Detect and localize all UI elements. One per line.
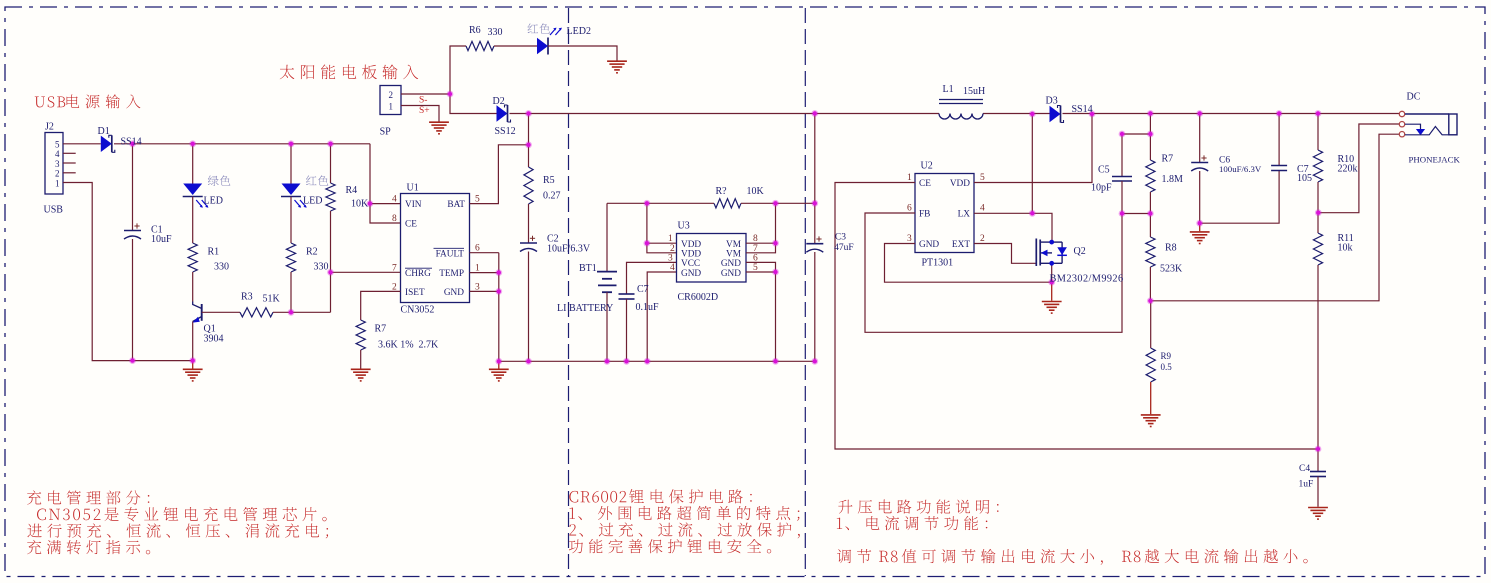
svg-text:SS14: SS14 xyxy=(1072,104,1093,115)
svg-text:VDD: VDD xyxy=(681,240,701,250)
resistor R9 0.5 xyxy=(1150,301,1152,348)
chip U3 CR6002D xyxy=(677,234,747,283)
svg-text:C7: C7 xyxy=(637,284,649,295)
wire U2 VDD to output xyxy=(974,114,1092,183)
resistor R7 1.8M xyxy=(1149,114,1151,161)
wire U3 VCC to C7 xyxy=(627,262,677,294)
label green color xyxy=(208,175,231,186)
svg-text:CE: CE xyxy=(405,220,417,230)
svg-text:15uH: 15uH xyxy=(963,86,985,97)
wire U2 LX to inductor node xyxy=(974,212,1032,214)
svg-text:330: 330 xyxy=(488,27,503,38)
svg-text:U3: U3 xyxy=(678,221,690,232)
wire U2 GND to Q2 source xyxy=(885,244,1052,283)
wire U1 ISET to R7 xyxy=(361,291,401,320)
svg-text:8: 8 xyxy=(753,234,758,244)
svg-text:U1: U1 xyxy=(407,183,419,194)
transistor Q2 BM2302 xyxy=(1035,239,1037,267)
svg-text:2: 2 xyxy=(55,169,60,179)
wire rail L1 to D3 xyxy=(983,113,1050,115)
LED2 red xyxy=(537,38,548,54)
svg-text:R4: R4 xyxy=(346,185,358,196)
title solar panel input xyxy=(280,64,418,79)
svg-text:R?: R? xyxy=(716,186,728,197)
wire battery plus rail xyxy=(607,202,714,204)
wire rail D3 to DC jack xyxy=(1063,113,1400,115)
ground under LED2 xyxy=(607,60,627,62)
svg-text:VDD: VDD xyxy=(950,179,970,189)
svg-text:GND: GND xyxy=(444,288,464,298)
svg-text:GND: GND xyxy=(681,269,701,279)
svg-text:10uF/6.3V: 10uF/6.3V xyxy=(547,244,591,255)
svg-text:3.6K 1% 2.7K: 3.6K 1% 2.7K xyxy=(378,340,439,351)
svg-text:R2: R2 xyxy=(306,247,318,258)
svg-text:5: 5 xyxy=(475,195,480,205)
svg-text:1: 1 xyxy=(668,234,673,244)
svg-text:CR6002D: CR6002D xyxy=(678,292,719,303)
svg-text:R3: R3 xyxy=(241,292,253,303)
svg-text:Q2: Q2 xyxy=(1074,246,1086,257)
note charging management xyxy=(27,490,149,504)
wire U1 BAT to battery rail xyxy=(470,145,529,204)
svg-text:1: 1 xyxy=(389,102,394,112)
svg-text:D3: D3 xyxy=(1046,96,1058,107)
svg-text:PT1301: PT1301 xyxy=(922,258,954,269)
svg-text:1uF: 1uF xyxy=(1299,480,1314,490)
svg-text:TEMP: TEMP xyxy=(439,269,464,279)
svg-text:10K: 10K xyxy=(747,186,765,197)
svg-text:4: 4 xyxy=(670,263,675,273)
svg-text:SS12: SS12 xyxy=(495,126,516,137)
svg-text:1: 1 xyxy=(907,173,912,183)
svg-text:LED: LED xyxy=(303,196,322,207)
note CR6002 protection xyxy=(569,491,626,503)
svg-text:VIN: VIN xyxy=(405,200,422,210)
svg-text:R8: R8 xyxy=(1165,243,1177,254)
svg-text:CN3052: CN3052 xyxy=(401,305,435,316)
inductor L1 15uH xyxy=(939,99,983,101)
wire LX to Q2 drain xyxy=(1032,213,1052,242)
svg-text:VDD: VDD xyxy=(681,250,701,260)
wire Q2 source to ground xyxy=(1051,263,1053,282)
svg-text:R9: R9 xyxy=(1161,351,1172,361)
svg-text:R7: R7 xyxy=(1162,154,1174,165)
svg-text:5: 5 xyxy=(980,173,985,183)
wire J2 pin1 to ground rail xyxy=(63,183,193,361)
svg-text:LED2: LED2 xyxy=(567,26,591,37)
svg-text:CE: CE xyxy=(919,179,931,189)
wire U3 VM pins xyxy=(746,242,776,244)
svg-text:2: 2 xyxy=(389,90,394,100)
svg-text:USB: USB xyxy=(44,205,64,216)
transistor Q1 3904 xyxy=(201,304,203,321)
connector SP solar panel xyxy=(380,86,401,115)
svg-text:10uF: 10uF xyxy=(151,234,172,245)
svg-text:6: 6 xyxy=(907,204,912,214)
svg-text:D2: D2 xyxy=(493,96,505,107)
svg-text:J2: J2 xyxy=(45,122,54,133)
svg-text:VM: VM xyxy=(726,250,741,260)
svg-text:523K: 523K xyxy=(1160,264,1183,275)
connector J2 (USB) xyxy=(45,133,63,195)
svg-text:R6: R6 xyxy=(469,25,481,36)
wire U3 VDD pins xyxy=(647,242,677,244)
svg-text:5: 5 xyxy=(55,139,60,149)
wire R6 to LED2 xyxy=(494,45,537,47)
wire Q1 base to R3 xyxy=(202,311,240,313)
label red color LED2 xyxy=(528,23,550,33)
wire CHRG to R4 xyxy=(331,271,401,273)
svg-text:GND: GND xyxy=(919,240,939,250)
resistor R1 330 xyxy=(192,197,194,243)
J2 pin stubs xyxy=(63,143,101,145)
svg-text:1: 1 xyxy=(55,178,60,188)
diode D3 SS14 xyxy=(1050,106,1061,122)
svg-text:SS14: SS14 xyxy=(121,137,142,148)
wire rail corner to U1 VIN/CE xyxy=(370,144,401,223)
ground rail of charging section xyxy=(499,360,815,362)
chip U1 CN3052 xyxy=(401,194,470,303)
svg-text:VM: VM xyxy=(726,240,741,250)
ground under C4 xyxy=(1308,507,1328,509)
label red color xyxy=(306,175,328,185)
svg-text:2: 2 xyxy=(670,244,675,254)
LED red (D) xyxy=(290,144,292,184)
wire phonejack ring xyxy=(1318,124,1399,213)
junction dots xyxy=(129,140,136,147)
resistor R2 330 xyxy=(290,197,292,243)
svg-text:DC: DC xyxy=(1407,92,1421,103)
wire S- node down to D2 xyxy=(450,94,497,114)
svg-text:U2: U2 xyxy=(921,161,933,172)
svg-text:5: 5 xyxy=(753,263,758,273)
svg-text:220k: 220k xyxy=(1338,164,1358,175)
svg-text:PHONEJACK: PHONEJACK xyxy=(1409,155,1461,165)
svg-text:VCC: VCC xyxy=(681,259,700,269)
svg-text:L1: L1 xyxy=(943,84,954,95)
ground under S+ xyxy=(429,121,449,123)
resistor R? 10K xyxy=(714,199,741,208)
wire SP pin1 S+ to ground xyxy=(401,106,439,122)
wire U3 GND pins 5 6 xyxy=(746,262,776,361)
svg-text:3: 3 xyxy=(475,282,480,292)
svg-text:S+: S+ xyxy=(419,106,430,116)
svg-text:10k: 10k xyxy=(1338,243,1353,254)
svg-text:3: 3 xyxy=(55,159,60,169)
ground under Q1 xyxy=(192,361,194,369)
svg-text:FAULT: FAULT xyxy=(436,249,465,259)
svg-text:6: 6 xyxy=(753,253,758,263)
capacitor C7 0.1uF xyxy=(619,293,635,295)
wire SP pin2 S- node xyxy=(401,93,450,95)
ground under R7 xyxy=(351,368,371,370)
wire R3 to R4 bottom xyxy=(273,311,331,313)
svg-text:47uF: 47uF xyxy=(834,243,854,253)
svg-text:R1: R1 xyxy=(208,247,220,258)
capacitor C4 1uF xyxy=(1317,449,1319,472)
wire R8 bottom to phonejack sleeve xyxy=(1150,134,1399,301)
svg-text:10pF: 10pF xyxy=(1091,183,1112,194)
resistor R5 0.27 xyxy=(528,114,530,168)
svg-text:105: 105 xyxy=(1297,173,1312,184)
svg-text:7: 7 xyxy=(392,263,397,273)
svg-text:4: 4 xyxy=(392,195,397,205)
svg-text:0.5: 0.5 xyxy=(1161,362,1173,372)
svg-text:S-: S- xyxy=(419,96,427,106)
ground under R9 xyxy=(1141,414,1161,416)
wire LED2 to ground xyxy=(548,46,617,61)
section divider 2 xyxy=(804,8,806,576)
svg-text:C3: C3 xyxy=(835,233,846,243)
note boost function xyxy=(838,499,998,513)
title USB power input xyxy=(35,96,66,107)
wire main USB rail xyxy=(114,143,370,145)
svg-text:1: 1 xyxy=(475,263,480,273)
chip U2 PT1301 xyxy=(915,174,974,253)
svg-text:LX: LX xyxy=(958,210,971,220)
svg-text:D1: D1 xyxy=(98,126,110,137)
svg-text:GND: GND xyxy=(721,259,741,269)
svg-text:FB: FB xyxy=(919,210,930,220)
svg-text:LED: LED xyxy=(204,196,223,207)
wire output rail (D2 to L1) xyxy=(510,113,940,115)
capacitor C6 100uF/6.3V xyxy=(1199,114,1201,163)
svg-text:1.8M: 1.8M xyxy=(1162,174,1184,185)
Q2 terminal dots xyxy=(1049,240,1054,245)
capacitor C3 47uF xyxy=(814,114,816,244)
connector DC phonejack xyxy=(1399,111,1404,116)
svg-text:R5: R5 xyxy=(543,175,555,186)
svg-text:C4: C4 xyxy=(1299,464,1310,474)
ground under C6 xyxy=(1199,223,1201,231)
svg-text:C5: C5 xyxy=(1098,165,1110,176)
ground under Q2 xyxy=(1042,301,1062,303)
resistor R6 330 xyxy=(466,41,494,50)
svg-text:ISET: ISET xyxy=(405,288,425,298)
wire U2 FB loop xyxy=(865,213,1122,332)
svg-text:BAT: BAT xyxy=(447,200,465,210)
svg-text:CHRG: CHRG xyxy=(405,269,431,279)
wire C6 to C7 link xyxy=(1200,171,1279,224)
svg-text:4: 4 xyxy=(55,149,60,159)
svg-text:EXT: EXT xyxy=(952,240,970,250)
svg-text:3904: 3904 xyxy=(204,334,224,345)
resistor R7 3.6K xyxy=(356,320,365,350)
svg-text:8: 8 xyxy=(392,214,397,224)
resistor R4 10K xyxy=(330,144,332,183)
svg-text:7: 7 xyxy=(753,244,758,254)
wire U1 FAULT/TEMP/GND to ground chain xyxy=(470,252,499,254)
section divider 1 xyxy=(568,8,570,576)
capacitor C5 10pF xyxy=(1122,134,1150,177)
svg-text:3: 3 xyxy=(668,253,673,263)
svg-text:330: 330 xyxy=(314,262,329,273)
svg-text:2: 2 xyxy=(392,282,397,292)
diode D1 SS14 xyxy=(101,136,112,152)
svg-text:6: 6 xyxy=(475,244,480,254)
svg-text:330: 330 xyxy=(214,262,229,273)
wire R? to VM node xyxy=(741,202,815,204)
resistor R8 523K xyxy=(1146,237,1155,267)
wire S- node up to R6 xyxy=(450,46,466,94)
wire U2 CE loop xyxy=(835,183,1318,450)
svg-text:0.1uF: 0.1uF xyxy=(636,302,660,313)
svg-text:R7: R7 xyxy=(375,324,387,335)
capacitor C1 10uF xyxy=(132,144,134,231)
resistor R3 51K xyxy=(240,308,273,317)
svg-text:10K: 10K xyxy=(351,199,369,210)
battery BT1 xyxy=(606,203,608,271)
svg-text:SP: SP xyxy=(380,127,392,138)
svg-text:2: 2 xyxy=(980,234,985,244)
svg-text:3: 3 xyxy=(907,234,912,244)
LED green (D) xyxy=(192,144,194,184)
svg-text:0.27: 0.27 xyxy=(543,191,561,202)
svg-text:BT1: BT1 xyxy=(579,263,597,274)
svg-text:GND: GND xyxy=(721,269,741,279)
svg-text:LI BATTERY: LI BATTERY xyxy=(557,303,613,314)
svg-text:51K: 51K xyxy=(263,294,281,305)
svg-text:100uF/6.3V: 100uF/6.3V xyxy=(1219,164,1262,174)
svg-text:4: 4 xyxy=(980,204,985,214)
wire U2 EXT to Q2 gate xyxy=(974,244,1036,264)
wire U3 GND pin4 xyxy=(647,272,676,361)
ground under rail xyxy=(498,361,500,368)
capacitor C7 105 xyxy=(1278,114,1280,166)
svg-text:BM2302/M9926: BM2302/M9926 xyxy=(1050,274,1124,285)
diode D2 SS12 xyxy=(497,105,508,121)
resistor R11 10k xyxy=(1317,213,1319,233)
capacitor C2 10uF/6.3V xyxy=(528,204,530,243)
resistor R10 220k xyxy=(1317,114,1319,151)
